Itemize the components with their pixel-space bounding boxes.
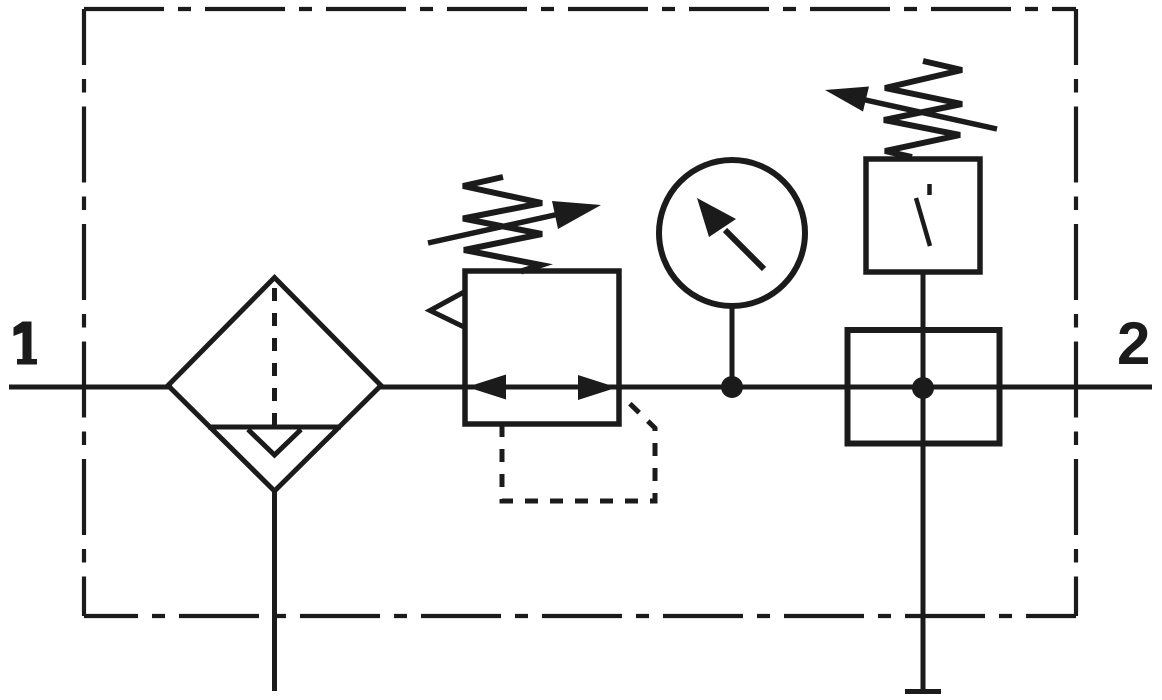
filter: drain triangle: [248, 430, 301, 456]
wire: valve stem from switch box through body to drain: [921, 272, 926, 691]
exhaust T-bar: [905, 689, 941, 694]
switch box: lever line: [916, 198, 930, 246]
enclosure border: top edge (dash-dot): [84, 7, 1076, 11]
valve spring arrow shaft: [861, 99, 997, 129]
switch box: contact dash: [927, 184, 932, 195]
regulator: left flow arrowhead: [467, 375, 506, 400]
regulator: adjustment arrowhead: [552, 201, 601, 229]
valve spring arrowhead: [825, 87, 869, 112]
wire: inlet line from port 1 to filter: [9, 385, 172, 390]
svg-text:2: 2: [1117, 310, 1150, 377]
enclosure border: left edge (dash-dot): [82, 9, 86, 616]
filter: condensate level line: [208, 425, 341, 430]
junction: valve tap dot: [912, 377, 934, 399]
gauge: needle shaft: [725, 230, 764, 269]
gauge: needle arrowhead: [697, 198, 736, 237]
gauge G1: body circle: [659, 160, 805, 306]
enclosure border: right edge (dash-dot): [1074, 9, 1078, 616]
regulator: relief chevron: [430, 292, 465, 328]
junction: gauge tap dot: [721, 376, 743, 398]
regulator: adjustment spring: [463, 177, 542, 272]
regulator R1: body: [465, 271, 619, 424]
wire: main flow line from filter outlet to port 2: [378, 385, 1152, 390]
port 1 label: [14, 322, 38, 365]
gauge: stem: [730, 306, 735, 387]
regulator: adjustment arrow shaft: [428, 213, 566, 244]
regulator: right flow arrowhead: [578, 375, 617, 400]
filter: dashed element line: [272, 288, 277, 427]
regulator: pilot line (dashed): [502, 397, 655, 501]
filter F1: diamond body: [168, 278, 381, 492]
wire: filter drain line: [272, 491, 277, 691]
enclosure border: bottom edge (dash-dot): [84, 614, 1076, 618]
switch box S1: body: [866, 159, 980, 272]
valve V1: body: [848, 330, 1000, 444]
valve spring: [884, 61, 962, 157]
